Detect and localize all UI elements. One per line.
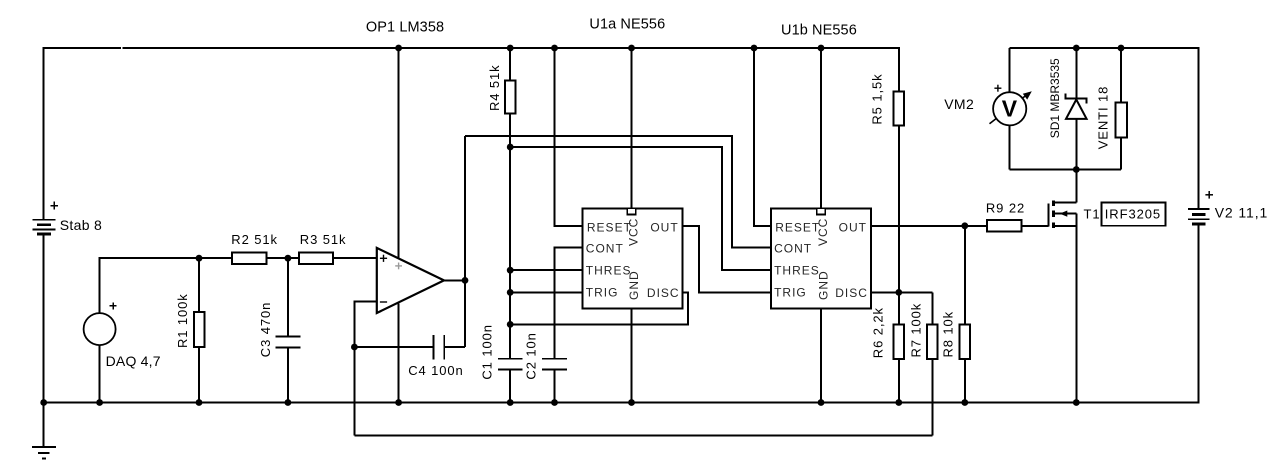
svg-text:GND: GND: [817, 270, 831, 300]
wire THRES row U1a: [510, 269, 582, 271]
wire fan subcircuit top: [1010, 47, 1200, 49]
junction dot DISC R5/R6: [895, 289, 902, 296]
svg-text:Stab 8: Stab 8: [60, 217, 102, 233]
svg-text:RESET: RESET: [587, 220, 632, 234]
wire R4 link to U1b THRES: [510, 147, 771, 270]
wire U1a OUT to U1b TRIG: [683, 226, 771, 293]
junction dot R1 bottom: [196, 399, 203, 406]
svg-text:C2 10n: C2 10n: [524, 332, 539, 379]
wire bottom rail: [43, 402, 1200, 404]
resistor R6: [894, 292, 904, 402]
svg-text:VENTI 18: VENTI 18: [1095, 86, 1110, 150]
svg-text:V: V: [1002, 96, 1018, 122]
junction dot op-amp V- rail: [395, 399, 402, 406]
plus sign of Stab 8: [51, 202, 59, 210]
junction dot VENTI top: [1118, 45, 1125, 52]
svg-text:C4 100n: C4 100n: [408, 363, 463, 378]
svg-text:RESET: RESET: [775, 220, 820, 234]
wire U1a DISC link: [510, 292, 688, 324]
diode SD1: [1065, 48, 1088, 170]
junction dot DISC link column: [507, 321, 514, 328]
wire op-amp minus input: [354, 302, 376, 347]
resistor R9: [987, 220, 1021, 232]
svg-text:R2 51k: R2 51k: [231, 232, 278, 247]
wire top rail right segment: [122, 47, 899, 49]
wire T1 source down: [1075, 226, 1077, 403]
wire R1 to R2: [199, 257, 232, 259]
svg-text:OUT: OUT: [650, 220, 678, 234]
plus sign of V2: [1205, 191, 1213, 199]
svg-text:GND: GND: [627, 270, 641, 300]
resistor R4: [505, 48, 515, 358]
wire output link to U1b CONT: [465, 136, 771, 248]
wire U1b RESET from rail: [754, 48, 771, 226]
ground: [32, 403, 56, 460]
junction dot R1 top: [196, 255, 203, 262]
wire DAQ top: [100, 258, 199, 313]
junction dot SD1 top: [1073, 45, 1080, 52]
wire feedback node down: [353, 347, 355, 435]
junction dot op-amp V+ rail: [395, 45, 402, 52]
svg-text:OUT: OUT: [839, 220, 867, 234]
resistor R1: [194, 258, 204, 402]
wire op-amp output: [444, 279, 465, 281]
capacitor C4: [432, 335, 445, 360]
junction dot ground/rail: [40, 399, 47, 406]
svg-text:THRES: THRES: [774, 263, 820, 277]
junction dot feedback node: [351, 344, 358, 351]
wire R3 to op-amp: [333, 257, 377, 259]
svg-text:T1: T1: [1084, 207, 1101, 222]
junction dot U1a RESET rail: [551, 45, 558, 52]
fan VENTI 18: [1115, 48, 1126, 170]
op-amp minus input marker: [380, 301, 387, 303]
op-amp plus input marker: [380, 255, 387, 262]
IC U1a NE556 box: [583, 208, 683, 308]
svg-text:CONT: CONT: [774, 241, 812, 255]
wire R2 to R3: [267, 257, 299, 259]
svg-text:R4 51k: R4 51k: [487, 64, 502, 111]
svg-text:VM2: VM2: [944, 96, 974, 112]
junction dot U1a VCC rail: [628, 45, 635, 52]
svg-text:IRF3205: IRF3205: [1105, 207, 1161, 222]
resistor R8: [960, 226, 970, 403]
wire op-amp V+ supply: [398, 48, 400, 258]
wire feedback bottom run: [354, 434, 932, 436]
junction dot C1 bottom: [507, 399, 514, 406]
svg-text:R1 100k: R1 100k: [175, 293, 190, 348]
svg-text:CONT: CONT: [586, 241, 624, 255]
junction dot op-amp output: [462, 277, 469, 284]
junction dot U1a GND rail: [628, 399, 635, 406]
junction dot R8 bottom: [961, 399, 968, 406]
svg-text:C1 100n: C1 100n: [479, 324, 494, 379]
wire top rail left segment: [43, 47, 121, 49]
junction dot U1b GND rail: [818, 399, 825, 406]
svg-text:R3 51k: R3 51k: [300, 232, 347, 247]
resistor R3: [299, 252, 333, 264]
wire DAQ bottom: [99, 345, 101, 402]
resistor R2: [232, 252, 266, 264]
svg-text:DISC: DISC: [835, 286, 868, 300]
capacitor C2: [542, 358, 567, 403]
capacitor C3: [276, 258, 301, 402]
junction dot C3 bottom: [285, 399, 292, 406]
svg-text:SD1 MBR3535: SD1 MBR3535: [1048, 58, 1062, 138]
wire C4 to output column: [445, 346, 465, 348]
wire op-amp V- supply: [398, 304, 400, 403]
svg-text:OP1 LM358: OP1 LM358: [366, 20, 444, 36]
wire left column lower: [43, 234, 45, 403]
svg-text:C3 470n: C3 470n: [258, 302, 273, 357]
wire fan subcircuit bottom: [1010, 169, 1121, 171]
svg-text:R6 2,2k: R6 2,2k: [871, 307, 886, 358]
wire U1a GND down: [631, 308, 633, 402]
svg-text:VCC: VCC: [627, 218, 641, 246]
box IRF3205: [1102, 203, 1166, 226]
junction dot R4 link node: [507, 144, 514, 151]
junction dot DAQ bottom: [96, 399, 103, 406]
junction dot T1 source rail: [1073, 399, 1080, 406]
wire feedback node to C4: [354, 346, 432, 348]
svg-text:DAQ 4,7: DAQ 4,7: [106, 353, 161, 369]
junction dot TRIG column: [507, 289, 514, 296]
junction dot U1b VCC rail: [818, 45, 825, 52]
U1b VCC pin pad: [817, 208, 825, 214]
wire U1b GND down: [820, 308, 822, 402]
U1a VCC pin pad: [627, 208, 635, 214]
svg-text:R5 1,5k: R5 1,5k: [869, 73, 884, 124]
wire output node up: [464, 136, 466, 280]
wire left column upper: [43, 47, 45, 220]
junction dot C2 bottom: [551, 399, 558, 406]
junction dot R4 top rail: [507, 45, 514, 52]
wire R9 to gate: [1022, 225, 1049, 227]
wire U1a RESET from rail: [555, 48, 583, 226]
junction dot R8 top: [961, 222, 968, 229]
svg-text:TRIG: TRIG: [774, 286, 807, 300]
source DAQ 4,7: [84, 302, 117, 345]
IC U1b NE556 box: [771, 208, 871, 308]
junction dot R2-R3 node: [285, 255, 292, 262]
svg-text:R8 10k: R8 10k: [940, 311, 955, 358]
battery V2: [1188, 47, 1210, 403]
svg-text:U1b NE556: U1b NE556: [781, 23, 857, 39]
wire output node down to C4: [464, 280, 466, 347]
capacitor C1: [498, 358, 523, 403]
op-amp supply plus marker gray: [395, 263, 402, 270]
svg-text:TRIG: TRIG: [586, 286, 619, 300]
wire TRIG row U1a: [510, 291, 582, 293]
svg-text:U1a NE556: U1a NE556: [589, 17, 665, 33]
wire U1b VCC from rail: [820, 48, 822, 208]
junction dot SD1 bottom: [1073, 166, 1080, 173]
battery Stab 8: [33, 219, 56, 235]
transistor T1 MOSFET: [1047, 170, 1076, 229]
wire U1b DISC row: [871, 291, 933, 293]
svg-text:VCC: VCC: [816, 218, 830, 246]
svg-text:V2 11,1: V2 11,1: [1215, 205, 1269, 221]
wire U1b OUT row: [871, 225, 987, 227]
wire U1a CONT down through C2: [555, 248, 583, 358]
svg-text:THRES: THRES: [586, 263, 632, 277]
voltmeter VM2: [990, 48, 1032, 170]
wire U1a VCC from rail: [631, 48, 633, 208]
svg-text:DISC: DISC: [647, 286, 680, 300]
resistor R5: [894, 47, 904, 292]
resistor R7: [927, 292, 937, 435]
svg-text:R7 100k: R7 100k: [909, 303, 924, 358]
junction dot THRES column: [507, 267, 514, 274]
junction dot R6 bottom: [895, 399, 902, 406]
junction dot U1b RESET rail: [751, 45, 758, 52]
op-amp U1 triangle: [377, 248, 444, 313]
svg-text:R9 22: R9 22: [986, 200, 1025, 215]
